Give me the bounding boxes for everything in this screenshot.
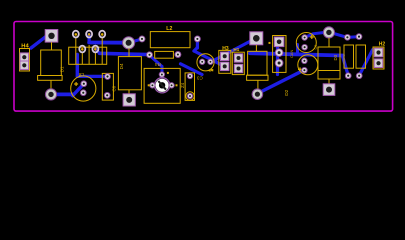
diode D1 xyxy=(38,42,65,100)
wire P2 to P3 xyxy=(350,35,358,39)
capacitor C3 circle xyxy=(197,54,215,81)
potentiometer RV1 xyxy=(144,68,180,103)
wire T1 pad2 down xyxy=(87,35,90,42)
connector H1 xyxy=(232,47,244,75)
svg-text:C6: C6 xyxy=(112,85,117,91)
big pad P1 xyxy=(123,37,135,49)
wire mid y53 horizontal xyxy=(250,53,343,55)
square pad SP1 xyxy=(45,30,58,43)
connector H4 xyxy=(20,44,30,71)
wire T1 internal vertical xyxy=(76,55,79,77)
svg-text:H1: H1 xyxy=(233,47,239,52)
wire C8 diagonal xyxy=(73,84,84,96)
svg-text:C9: C9 xyxy=(314,45,318,50)
wire T1 to P1 xyxy=(89,41,126,45)
svg-text:C8: C8 xyxy=(78,72,84,77)
wire D2 pad diagonal xyxy=(260,71,303,93)
board outline xyxy=(14,22,393,112)
wire Q1 to D2 pad xyxy=(211,40,254,62)
diode D4 xyxy=(118,48,141,106)
connector H3 xyxy=(219,46,231,74)
resistor R4 xyxy=(147,51,181,67)
connector H2 xyxy=(373,42,385,69)
svg-text:R4: R4 xyxy=(155,62,161,67)
svg-text:CAN: CAN xyxy=(289,49,294,58)
wire R5 leg xyxy=(343,56,349,76)
wire D1 pad right xyxy=(55,93,74,97)
capacitor C9 circle top xyxy=(296,33,318,53)
wire R4 to pot diagonal xyxy=(150,55,163,66)
wire L2 right pad down xyxy=(196,40,199,48)
wire left y53 to R4 xyxy=(100,53,150,54)
wire C8 row horizontal xyxy=(77,75,103,78)
wire T1 lower pad stub xyxy=(95,49,99,54)
capacitor C8 xyxy=(71,72,96,101)
svg-text:D1: D1 xyxy=(60,66,65,72)
diode D3 xyxy=(318,27,340,96)
zener Z4 xyxy=(180,73,195,101)
svg-text:C3: C3 xyxy=(197,76,203,81)
wire pot top vertical xyxy=(161,67,164,74)
wire H4 to SP1 xyxy=(31,36,47,48)
svg-text:L2: L2 xyxy=(166,26,172,32)
wire to H2 pad xyxy=(373,50,378,52)
inductor L2 xyxy=(139,26,200,48)
connector CAN strip xyxy=(269,36,295,73)
wire P1 to L2 left pad xyxy=(130,39,143,43)
svg-text:D3: D3 xyxy=(333,54,338,60)
wire via to bus vertical xyxy=(296,45,299,54)
svg-text:Z4: Z4 xyxy=(180,82,185,88)
diode D2 xyxy=(247,32,290,100)
wire C9 to big pad xyxy=(305,32,325,37)
wire to H3 lower pad xyxy=(194,51,225,66)
wire L2 pad bend xyxy=(194,48,197,52)
wire big pad to P2 xyxy=(332,33,347,37)
capacitor C6 xyxy=(102,73,116,100)
transformer T1 xyxy=(69,31,107,65)
svg-text:D2: D2 xyxy=(284,89,290,95)
wire pot to via xyxy=(181,64,203,75)
svg-text:D4: D4 xyxy=(119,63,124,69)
resistor R5 xyxy=(344,34,354,78)
wire strip stub down xyxy=(276,45,279,75)
capacitor C10 circle bottom xyxy=(298,55,318,75)
resistor R6 xyxy=(356,34,366,79)
wire R6 leg xyxy=(359,50,372,76)
